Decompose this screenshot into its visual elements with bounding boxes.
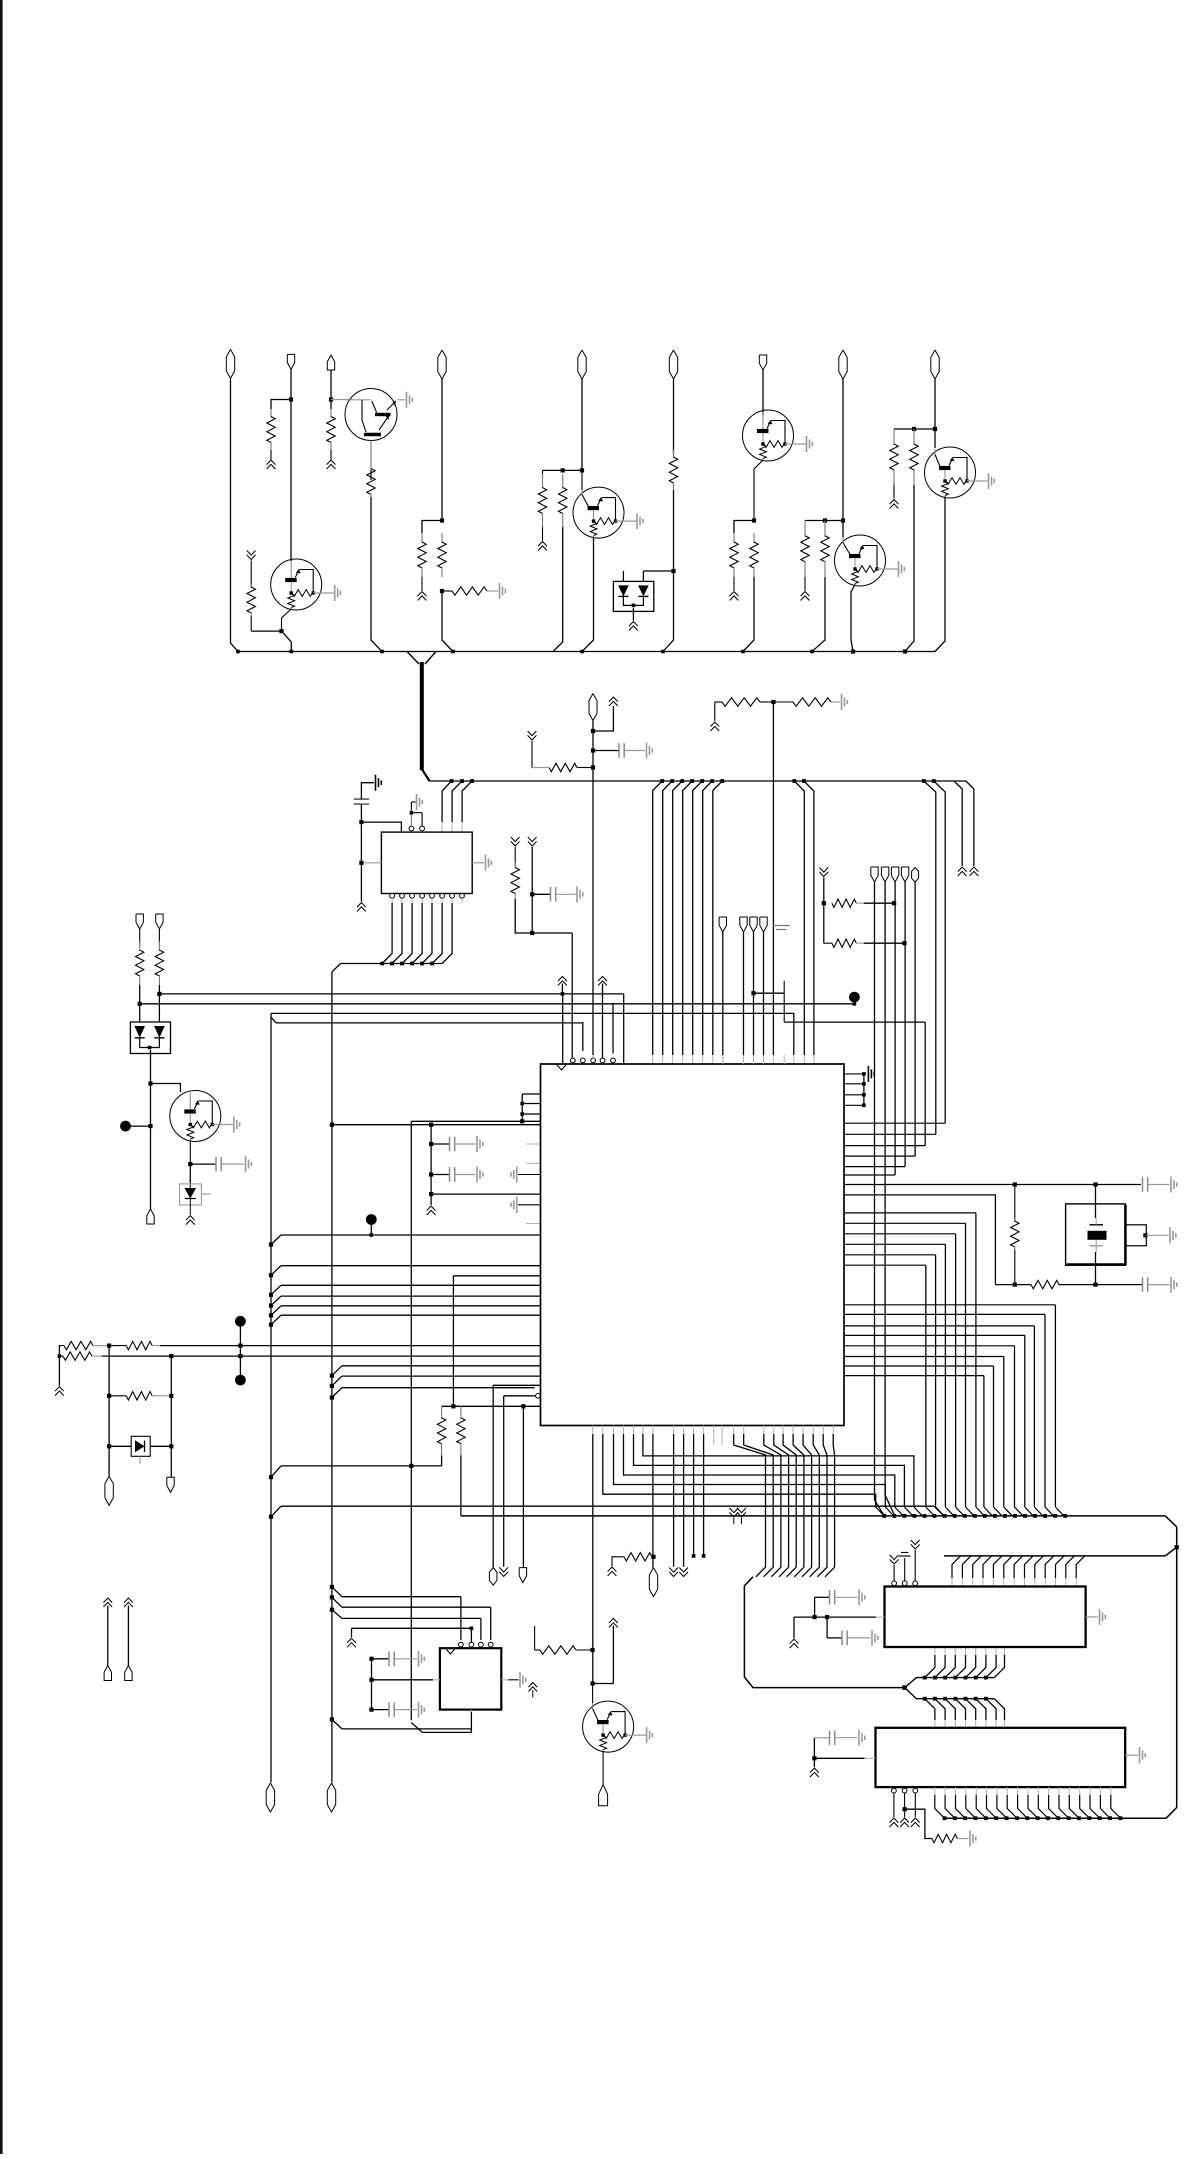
rail junction b6 bbox=[720, 779, 724, 783]
rail junction b2 bbox=[680, 779, 684, 783]
wire left vert bbox=[360, 822, 362, 901]
ground G19 bbox=[1140, 1747, 1146, 1763]
junction 532/933 bbox=[530, 931, 534, 935]
U3 pin1 notch bbox=[557, 1065, 566, 1070]
wire rail to U3 top pin 3 bbox=[683, 781, 693, 1064]
resistor R14 bbox=[910, 429, 918, 485]
resistor R10 bbox=[750, 533, 758, 577]
pin P13 bbox=[156, 914, 163, 929]
junction xtal tab bbox=[1143, 1233, 1147, 1237]
wire row2 cap bbox=[1096, 1284, 1143, 1286]
wires U3 right staircase-up bbox=[844, 1123, 945, 1175]
IC2 right gnd wire bbox=[1086, 1616, 1098, 1618]
ground G26 (mirrored) bbox=[511, 1197, 517, 1213]
wire P2 down bbox=[290, 369, 292, 561]
rail junction u0 bbox=[450, 779, 454, 783]
dual diode D1 bbox=[613, 581, 653, 611]
ground arrow below R9 bbox=[730, 592, 739, 601]
U2 bus wire bbox=[341, 963, 443, 965]
wire C2 up to gnd bbox=[361, 783, 374, 799]
junction 1014/1184 bbox=[1013, 1182, 1017, 1186]
wire y1506 bbox=[271, 1506, 944, 1517]
wire y1345 to U3 bbox=[160, 1345, 540, 1347]
wire 532 down bbox=[531, 847, 533, 933]
junction wrap split bbox=[902, 1685, 907, 1690]
junction Q6 e bbox=[188, 1162, 192, 1166]
U4 pin1 notch bbox=[446, 1649, 455, 1654]
wire R20-R21 left bbox=[58, 1346, 61, 1386]
wire IC3 left bbox=[814, 1757, 875, 1759]
pin P22 bbox=[489, 1568, 497, 1586]
ground G24 bbox=[520, 1672, 526, 1688]
junction 1095/1184 bbox=[1093, 1182, 1097, 1186]
transistor Q2 bbox=[573, 487, 643, 538]
junction IC2 b bbox=[825, 1615, 829, 1619]
resistor R24 bbox=[511, 847, 532, 933]
junction 171/1356 bbox=[169, 1354, 173, 1358]
wire Q6 emitter down bbox=[189, 1141, 191, 1165]
pin flag 744 bbox=[740, 917, 747, 932]
wire P1 down to bus bbox=[231, 378, 239, 651]
ground G2 bbox=[500, 583, 506, 599]
wires U3 right staircase-down-1 bbox=[844, 1213, 984, 1516]
U2 top inverted pin 1 bbox=[409, 826, 414, 831]
wire U4 bottom stub bbox=[470, 1710, 472, 1712]
ground arrow U2 bbox=[357, 903, 366, 912]
wire junction down to R2 bbox=[330, 400, 332, 410]
power trunk (thick) bbox=[422, 662, 430, 781]
ground arrow below R1 bbox=[267, 460, 276, 469]
rail junction r0 bbox=[922, 779, 926, 783]
junction 332/1719 bbox=[330, 1717, 334, 1721]
resistor R6 horizontal bbox=[442, 587, 498, 595]
wires 332 to U4 top pins bbox=[330, 1585, 491, 1640]
transistor Q7 bbox=[583, 1701, 653, 1752]
wire U3 xtal row2 bbox=[844, 1195, 995, 1285]
wire 411 bottom jog bbox=[411, 1723, 471, 1733]
arrow above 613 bbox=[609, 697, 618, 706]
pin P8 bbox=[839, 350, 847, 379]
arrow net 2 bbox=[124, 1598, 133, 1666]
wire C3 gnd bbox=[221, 1163, 244, 1165]
wire U4 left pin bbox=[372, 1679, 440, 1681]
junction P9a bbox=[933, 427, 937, 431]
wires Y2 to IC2 top pins bbox=[952, 1556, 1085, 1587]
ground stub IC2 bbox=[790, 1617, 799, 1648]
IC3 right gnd wire bbox=[1125, 1754, 1138, 1756]
wire rail to U3 top pin 5 bbox=[703, 781, 713, 1064]
junction 109/1396 bbox=[107, 1394, 111, 1398]
wire R12 to bus bbox=[812, 577, 825, 652]
bus junction e bbox=[580, 650, 584, 654]
pin P2 bbox=[287, 354, 294, 369]
pin flag 895 bbox=[891, 867, 898, 882]
resistor R16 bbox=[773, 698, 840, 706]
resistor R22 bbox=[109, 1341, 160, 1349]
junction 753/994 bbox=[751, 991, 755, 995]
wire flag 744 to U3 bbox=[743, 932, 745, 1064]
transistor Q1 (dual) bbox=[345, 389, 397, 441]
pin P15 bbox=[105, 1476, 113, 1505]
wire P3 down bbox=[330, 370, 332, 400]
junction 171/1396 bbox=[169, 1394, 173, 1398]
wire y1466 bbox=[271, 1466, 442, 1477]
wire R8 to bus bbox=[663, 490, 674, 652]
junction 240/1345 bbox=[238, 1344, 242, 1348]
wire U4 invpin2 bbox=[470, 1627, 474, 1643]
wire 471 to arrow bbox=[352, 1628, 472, 1637]
wrap split upper bbox=[905, 1678, 995, 1688]
wire D1 right anode bbox=[643, 571, 673, 581]
bus junction d bbox=[451, 650, 455, 654]
wire row2 to R27 bbox=[995, 1284, 1031, 1286]
capacitor C2 bbox=[354, 799, 369, 804]
wire blob E stub bbox=[853, 1001, 857, 1006]
ground arrow 431 bbox=[427, 1206, 436, 1215]
junction 371/1679 bbox=[369, 1678, 373, 1682]
pin flag 885 bbox=[881, 867, 888, 882]
wires U2 pins to bus bbox=[382, 903, 452, 964]
wire Q5 emitter to bus bbox=[935, 497, 945, 652]
wire 652 hexpin bbox=[652, 1434, 655, 1568]
wire to R9 bbox=[734, 521, 754, 534]
junction R26 right bbox=[902, 941, 906, 945]
wire 693 to Y2 bbox=[692, 1434, 696, 1558]
rail junction b0 bbox=[660, 779, 664, 783]
wire Q4 emitter to bus bbox=[851, 585, 855, 652]
resistor R19 bbox=[155, 929, 163, 994]
resistor R1 bbox=[267, 409, 275, 450]
wire y1376 from 332 bbox=[330, 1376, 541, 1388]
arrow 515 bbox=[511, 837, 520, 846]
wire P5 left to R7 top bbox=[543, 469, 583, 471]
resistor R3 bbox=[367, 466, 375, 497]
junction 240/1356 bbox=[238, 1354, 242, 1358]
wire 271 vertical bbox=[270, 1013, 272, 1782]
wire to R1 bbox=[271, 400, 291, 410]
junction 431/1194 bbox=[429, 1192, 433, 1196]
wire to C10 bbox=[827, 1617, 842, 1638]
bottom bus right bend bbox=[1166, 1808, 1177, 1819]
rail1 corner down to U3 bbox=[623, 994, 625, 1064]
arrow busL1 bbox=[729, 1508, 738, 1524]
bus Y merge bbox=[407, 652, 436, 665]
ground G9 bbox=[477, 1136, 483, 1152]
wire IC2 left bbox=[794, 1616, 885, 1618]
junction P6 diode bbox=[671, 569, 675, 573]
wire hex915 down bbox=[914, 882, 916, 1156]
wire 572 feed bbox=[571, 933, 573, 1058]
wire 171 vertical bbox=[170, 1356, 172, 1477]
ground G21 bbox=[970, 1831, 976, 1847]
ground arrow below R13 bbox=[890, 500, 899, 509]
wire 673 arrow bbox=[673, 1434, 675, 1567]
wire 592 down (to Q7) bbox=[592, 1434, 594, 1684]
ground G12 bbox=[868, 1066, 874, 1082]
junction 431/1174 bbox=[429, 1172, 433, 1176]
junction P4 bbox=[440, 518, 444, 522]
wire to R29 bbox=[905, 1809, 932, 1838]
ground G25 (mirrored) bbox=[511, 1167, 517, 1183]
wire 683 arrow bbox=[683, 1434, 685, 1567]
wire R3 to bus bbox=[371, 497, 382, 652]
wire rail end arrow 1 bbox=[954, 781, 962, 866]
junction 332/1125 bbox=[330, 1123, 334, 1127]
wire y1345 stub right bbox=[239, 1345, 241, 1347]
capacitor C1 bbox=[619, 743, 624, 758]
wire y1194 to U3 bbox=[431, 1193, 540, 1195]
ground G22 bbox=[419, 1651, 425, 1667]
junction P10 c bbox=[591, 765, 595, 769]
rail junction b5 bbox=[710, 779, 714, 783]
junction R5 bottom bbox=[440, 589, 444, 593]
wire 562 arrow/rail1 crossing bbox=[558, 976, 567, 995]
wire R15 to junction bbox=[760, 701, 773, 703]
top bus wire bbox=[238, 651, 935, 653]
resistor R20 bbox=[60, 1341, 109, 1349]
junction R11 top bbox=[823, 518, 827, 522]
IC U2 body bbox=[381, 832, 472, 893]
transistor Q4 bbox=[835, 535, 905, 586]
ground G1 bbox=[407, 392, 413, 408]
pin P23 bbox=[519, 1568, 526, 1583]
wire 109 down bbox=[108, 1346, 110, 1476]
rail junction u1 bbox=[460, 779, 464, 783]
wire P3 to Q1 base bbox=[331, 399, 352, 401]
arrow 683 bbox=[679, 1568, 688, 1577]
wire R5 to bus bbox=[442, 591, 453, 652]
bottom bus wire bbox=[945, 1817, 1167, 1819]
U3 top inverted pins bbox=[570, 1058, 615, 1063]
ground arrow below R7a bbox=[538, 542, 547, 551]
wrap bus bbox=[744, 1577, 904, 1688]
bus junction a bbox=[236, 650, 240, 654]
wire xtal top bbox=[1095, 1185, 1097, 1219]
U3 left pin 1385 bbox=[493, 1385, 540, 1567]
junction 592/1650 bbox=[591, 1648, 595, 1652]
junction 522/1121 bbox=[520, 1119, 524, 1123]
wire 602 arrow bbox=[598, 976, 607, 1057]
junction 532/894 bbox=[530, 892, 534, 896]
pin flag 764 bbox=[760, 917, 767, 932]
junction left bbox=[58, 1354, 62, 1358]
wire rail to U3 pin m0 bbox=[794, 781, 804, 1064]
junction R15/R16 bbox=[771, 700, 775, 704]
wire flag875 down bbox=[875, 882, 885, 1516]
wire U2 left mid bbox=[361, 862, 381, 864]
wires IC3 bottom pins to bus bbox=[935, 1787, 1123, 1820]
resistor R5 bbox=[438, 533, 446, 577]
scanner edge bar bbox=[0, 0, 3, 2154]
wire P8 left bbox=[805, 520, 843, 522]
wire P5 down bbox=[581, 379, 583, 471]
ground stub IC3 bbox=[810, 1758, 819, 1777]
node blob C bbox=[235, 1375, 246, 1386]
junction 109/1446 bbox=[107, 1444, 111, 1448]
junction P10 a bbox=[591, 729, 595, 733]
ground G17 bbox=[859, 1589, 865, 1605]
junction 1095/1284 bbox=[1093, 1283, 1097, 1287]
rail junction b4 bbox=[700, 779, 704, 783]
junction 171/1446 bbox=[169, 1444, 173, 1448]
resistor R29 bbox=[932, 1834, 969, 1842]
node blob A bbox=[120, 1121, 131, 1132]
resistor R30 bbox=[540, 1646, 593, 1654]
wire/capacitor C13 bbox=[372, 1702, 418, 1717]
ground arrow zener bbox=[186, 1216, 195, 1225]
wire zener down bbox=[189, 1205, 191, 1215]
pin flag 874 bbox=[871, 867, 878, 882]
wire to D4 bbox=[109, 1445, 131, 1447]
pin P17 bbox=[104, 1666, 111, 1681]
IC2 stub marks bbox=[890, 1540, 920, 1581]
U3 pin stub 784 bbox=[783, 1055, 785, 1064]
pin P6 bbox=[669, 350, 677, 379]
pin P14 bbox=[147, 1209, 154, 1224]
wires U3 bottom bundle bbox=[734, 1434, 835, 1567]
wire U3 xtal row1 bbox=[844, 1184, 1141, 1186]
pin P4 bbox=[438, 350, 446, 379]
wire/capacitor C5 bbox=[431, 1167, 475, 1182]
wires U3 right gnd group bbox=[844, 1072, 866, 1107]
wire rail to staircase v945 bbox=[934, 781, 945, 1123]
junction 1477 bbox=[269, 1475, 273, 1479]
pin P20 bbox=[649, 1568, 657, 1597]
junction R7 top bbox=[561, 468, 565, 472]
junction blob A bbox=[148, 1124, 152, 1128]
rail junction u2 bbox=[470, 779, 474, 783]
pin P9 bbox=[931, 350, 939, 379]
wire P7 down bbox=[762, 370, 764, 415]
wire P8 down bbox=[842, 379, 844, 537]
pin P12 bbox=[136, 914, 143, 929]
wire rail to U2 pin 1 bbox=[452, 781, 462, 832]
rail junction b3 bbox=[690, 779, 694, 783]
wire y1356 to U3 bbox=[102, 1355, 541, 1357]
junction 823/903 bbox=[822, 901, 826, 905]
wire 332 to U4 bottom bbox=[332, 1710, 472, 1729]
wire R4 bottom bbox=[421, 577, 423, 591]
capacitor C9 bbox=[830, 1590, 858, 1605]
wire blob B stub bbox=[239, 1326, 241, 1356]
bus junction h bbox=[810, 650, 814, 654]
wire to C3 bbox=[190, 1163, 216, 1165]
wire 431 vertical bbox=[430, 1125, 432, 1205]
U2 top inverted pin 2 bbox=[420, 826, 425, 831]
pin P7 bbox=[759, 355, 766, 370]
ground G3 bbox=[842, 694, 848, 710]
resistor R9 bbox=[730, 533, 738, 577]
wrap split lower bbox=[905, 1688, 995, 1699]
junction 371/1658 bbox=[369, 1657, 373, 1661]
bus Y1 right bend bbox=[1165, 1516, 1176, 1527]
wire flag895 down bbox=[894, 882, 896, 1175]
ground arrow R15 bbox=[710, 702, 722, 731]
wire 773 down to U3 bbox=[772, 702, 774, 1064]
rail junction m1 bbox=[802, 779, 806, 783]
transistor Q5 bbox=[925, 447, 995, 498]
bus junction c bbox=[380, 650, 384, 654]
resistor R33 bbox=[612, 1553, 654, 1566]
wire 722 stub bbox=[721, 1434, 723, 1445]
crystal element bbox=[1088, 1218, 1107, 1252]
wire xtal bottom bbox=[1095, 1252, 1097, 1285]
ground arrow below R2 bbox=[327, 460, 336, 469]
ground G15 bbox=[1170, 1227, 1176, 1243]
pin P16 bbox=[167, 1477, 174, 1492]
ground arrow below R4 bbox=[418, 592, 427, 601]
transistor Q3 bbox=[743, 410, 813, 461]
ground G20 bbox=[859, 1730, 865, 1746]
wire 523 down bbox=[522, 1406, 524, 1567]
ground G5 bbox=[417, 794, 423, 810]
junction rail2 left bbox=[138, 1002, 142, 1006]
wire Q7 base bbox=[592, 1684, 594, 1704]
U3 left pin stub 1144 bbox=[526, 1143, 541, 1145]
resistor R2 bbox=[327, 409, 335, 450]
resistor R11 bbox=[801, 521, 809, 591]
rail junction m0 bbox=[792, 779, 796, 783]
junction 431/1125 bbox=[429, 1123, 433, 1127]
junction P2/R1 bbox=[289, 397, 293, 401]
junction D2a bbox=[148, 1081, 152, 1085]
wire y1022 to U3 pin bbox=[271, 1017, 583, 1051]
capacitor C7 bbox=[1143, 1177, 1170, 1192]
junction P10 b bbox=[591, 748, 595, 752]
ground G18 bbox=[872, 1630, 878, 1646]
ground G16 bbox=[1100, 1609, 1106, 1625]
wire D4 right bbox=[150, 1445, 171, 1447]
wire Q7 out bbox=[602, 1751, 604, 1785]
IC U4 body bbox=[440, 1648, 501, 1709]
ground G7 bbox=[486, 855, 492, 871]
capacitor C10 bbox=[842, 1631, 871, 1646]
wire/capacitor C6 bbox=[532, 887, 575, 902]
wire P9 down bbox=[934, 379, 936, 448]
bus junction g bbox=[741, 650, 745, 654]
rail junction b1 bbox=[670, 779, 674, 783]
wire/capacitor C4 bbox=[431, 1137, 475, 1152]
wire right vertical bbox=[1176, 1527, 1178, 1808]
wire to C11 bbox=[814, 1738, 829, 1759]
VCC rail wire bbox=[430, 780, 967, 782]
pin P19 (271 bottom) bbox=[266, 1783, 274, 1812]
diode D4 bbox=[131, 1436, 150, 1464]
zener D3 bbox=[180, 1184, 211, 1205]
U3 left pin 1396 (inverted) bbox=[504, 1393, 541, 1566]
resistor R32 bbox=[457, 1406, 465, 1516]
arrow net 1 bbox=[103, 1598, 112, 1666]
wire to C1 bbox=[593, 750, 619, 752]
junction P8a bbox=[841, 518, 845, 522]
resistor R7a bbox=[538, 470, 546, 540]
arrow 823 bbox=[819, 868, 828, 877]
U3 left pin 1406 row bbox=[442, 1405, 541, 1407]
resistor R4 bbox=[418, 533, 426, 577]
resistor R15 bbox=[722, 698, 760, 706]
wire 713 stub bbox=[713, 1434, 715, 1445]
ground G13 bbox=[1171, 1177, 1177, 1193]
wire y1366 from 332 bbox=[330, 1366, 541, 1378]
junction Q4 bus bbox=[851, 649, 855, 653]
junction QA/RA bbox=[279, 629, 283, 633]
junction IC3 a bbox=[812, 1756, 816, 1760]
junction IC2 a bbox=[813, 1615, 817, 1619]
arrow 532b bbox=[528, 1683, 537, 1698]
IC2 top inverted pins bbox=[892, 1581, 918, 1586]
U2 bus junction dots bbox=[380, 962, 434, 966]
wires wrap to IC3 top bbox=[923, 1697, 1005, 1728]
